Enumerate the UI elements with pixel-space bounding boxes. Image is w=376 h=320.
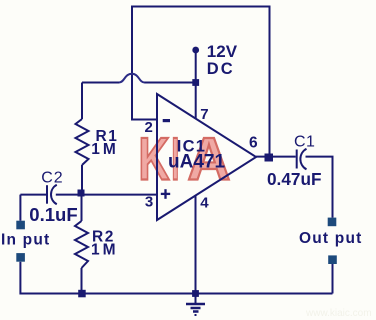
svg-text:0.1uF: 0.1uF xyxy=(29,204,77,225)
svg-text:DC: DC xyxy=(207,60,235,78)
svg-text:In put: In put xyxy=(1,231,50,248)
svg-text:www.kiaic.com: www.kiaic.com xyxy=(305,308,372,319)
svg-text:uA471: uA471 xyxy=(168,152,225,173)
svg-text:3: 3 xyxy=(145,194,153,211)
svg-text:C1: C1 xyxy=(294,134,315,151)
svg-text:6: 6 xyxy=(249,134,258,151)
svg-text:C2: C2 xyxy=(41,169,63,186)
svg-text:12V: 12V xyxy=(207,42,238,61)
svg-text:7: 7 xyxy=(200,106,208,123)
svg-text:4: 4 xyxy=(200,195,209,212)
svg-text:1M: 1M xyxy=(91,242,119,259)
svg-text:K: K xyxy=(139,127,170,194)
svg-text:Out put: Out put xyxy=(299,230,363,247)
svg-text:0.47uF: 0.47uF xyxy=(267,169,321,189)
svg-text:1M: 1M xyxy=(91,141,119,158)
svg-text:2: 2 xyxy=(145,119,153,136)
